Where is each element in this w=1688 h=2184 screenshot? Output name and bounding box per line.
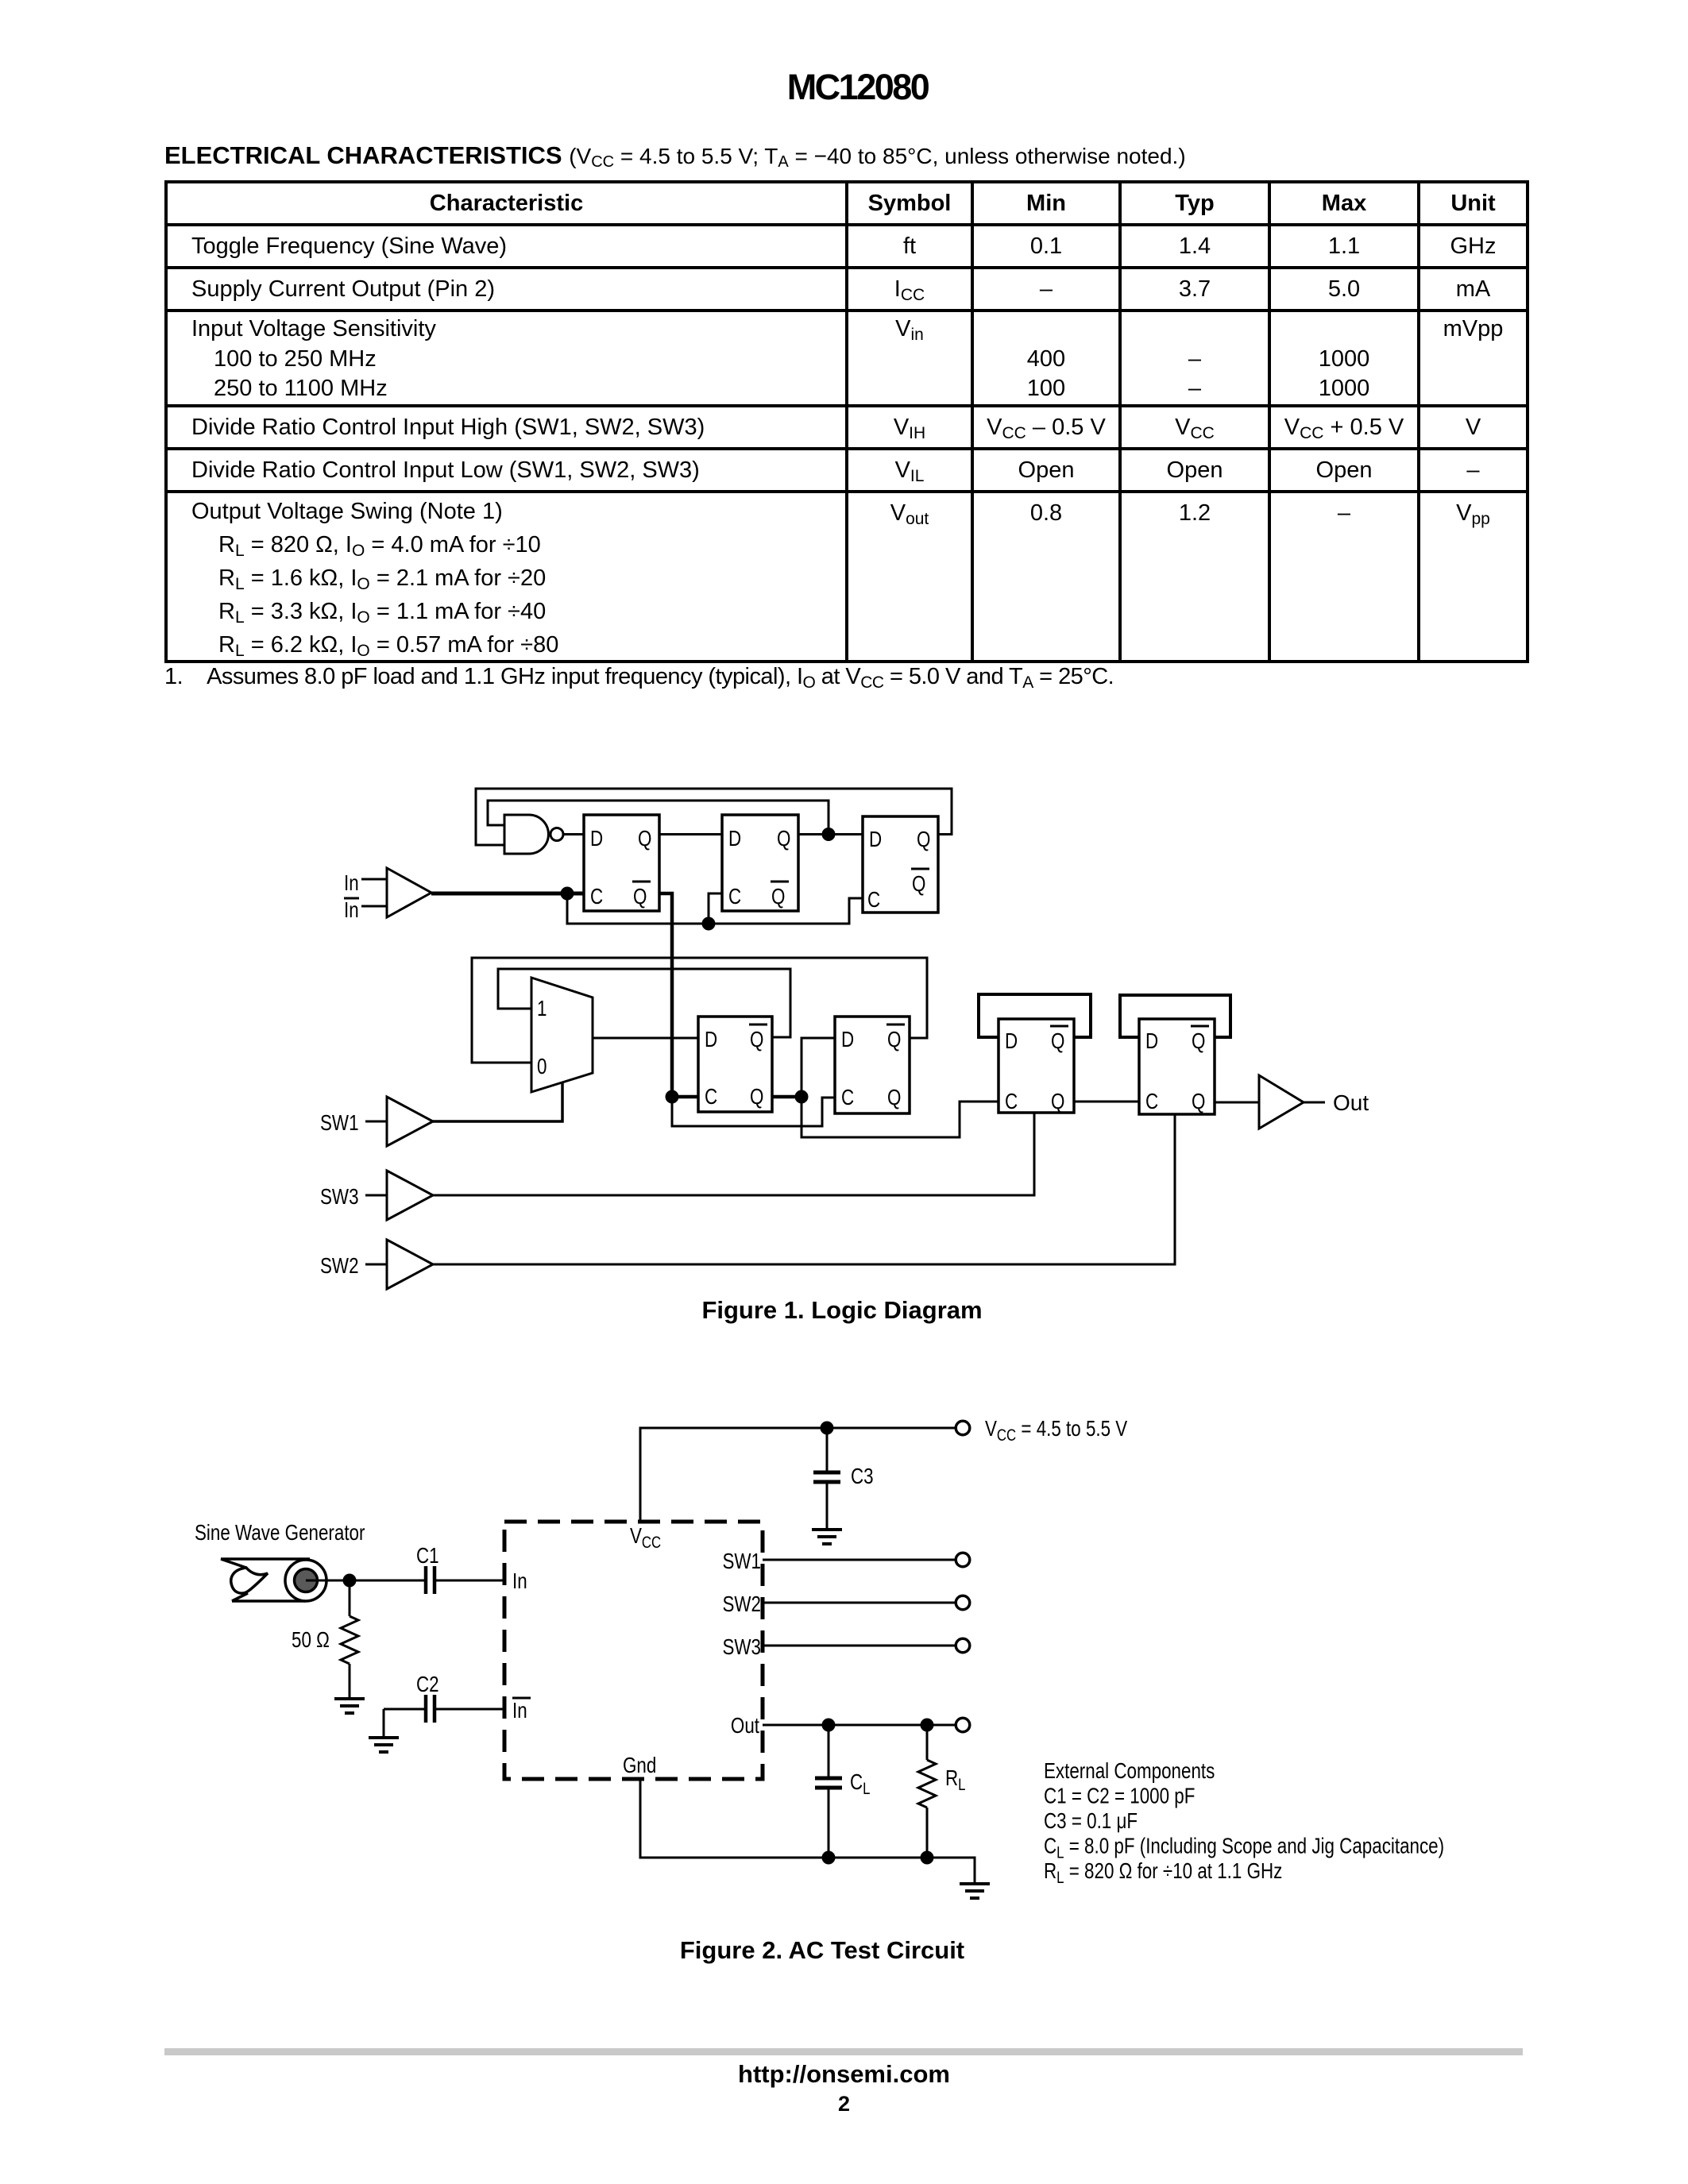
wire NAND output to FF1 D (563, 833, 584, 835)
svg-text:C3 = 0.1 μF: C3 = 0.1 μF (1044, 1809, 1138, 1834)
sine wave generator symbol (221, 1559, 326, 1601)
svg-text:In: In (512, 1569, 527, 1594)
flip-flop FF5 (835, 1017, 910, 1113)
wire SW3 to terminal (763, 1645, 955, 1647)
wire FF6 Q to FF7 C (1074, 1101, 1139, 1103)
buffer Out (1259, 1075, 1325, 1129)
terminal Out (956, 1718, 970, 1732)
wire FF7 Q to output buffer (1215, 1102, 1259, 1104)
wire VCC supply rail (640, 1428, 955, 1522)
wire SW1 to mux select (433, 1083, 562, 1121)
wire clock bus to FF2 C and FF3 C (567, 893, 863, 924)
svg-text:VCC = 4.5 to 5.5 V: VCC = 4.5 to 5.5 V (985, 1417, 1127, 1445)
node Gnd junction at RL (921, 1851, 934, 1865)
node junction FF4 Q (795, 1090, 809, 1104)
mux M1 (531, 978, 593, 1092)
wire FF5 Qbar feedback loop to mux input 0 (472, 958, 927, 1063)
wire FF4 Qbar feedback loop to mux input 1 (498, 969, 790, 1037)
wire NAND outer feedback loop from FF3 Q (476, 789, 952, 845)
svg-text:C3: C3 (851, 1464, 874, 1489)
wire FF4 Q to FF5 D and FF6 C (772, 1095, 802, 1099)
buffer SW3 (365, 1171, 433, 1220)
flip-flop FF4 (698, 1017, 772, 1112)
wire SW1 to terminal (763, 1559, 955, 1561)
buffer SW2 (365, 1240, 433, 1289)
wire into FF4 C (672, 1095, 698, 1099)
resistor 50 ohm (341, 1580, 358, 1699)
wire NAND inner feedback loop from FF2 Q node (488, 801, 829, 835)
title (14, 67, 1688, 108)
ground under 50 ohm (334, 1699, 365, 1713)
wire FF7 feedback loop Qbar to D (1120, 995, 1230, 1037)
node Gnd junction at CL (822, 1851, 836, 1865)
capacitor CL (815, 1725, 842, 1858)
svg-text:SW1: SW1 (722, 1549, 761, 1574)
label External Components (1044, 1759, 1444, 1888)
ground at bus end (960, 1884, 990, 1898)
node VCC junction (821, 1422, 834, 1435)
svg-text:Gnd: Gnd (623, 1754, 656, 1778)
node generator junction (343, 1574, 357, 1588)
device under test dashed box (504, 1522, 763, 1779)
wire up to FF5 D (802, 1038, 835, 1097)
svg-text:External Components: External Components (1044, 1759, 1215, 1784)
resistor RL (918, 1725, 936, 1858)
svg-text:Out: Out (731, 1714, 759, 1738)
wire Gnd bus (640, 1779, 975, 1884)
svg-text:SW3: SW3 (722, 1635, 761, 1660)
svg-text:C1: C1 (416, 1544, 439, 1569)
svg-text:Sine Wave Generator: Sine Wave Generator (195, 1521, 365, 1545)
wire generator to C1 (306, 1580, 424, 1582)
capacitor C3 (813, 1428, 840, 1530)
terminal VCC (956, 1421, 970, 1435)
node Out junction at RL (921, 1719, 934, 1732)
svg-text:CL = 8.0 pF (Including Scope a: CL = 8.0 pF (Including Scope and Jig Cap… (1044, 1834, 1444, 1862)
node junction on FF2 Q wire (822, 828, 836, 841)
terminal SW3 (956, 1638, 970, 1653)
wire mux output to FF4 D (593, 1037, 698, 1040)
wire FF6 feedback loop Qbar to D (979, 994, 1091, 1037)
wire clock branch up to FF2 C (709, 893, 722, 924)
electrical characteristics table (164, 180, 1529, 663)
wire FF2 Q to FF3 D (798, 833, 863, 835)
svg-text:RL: RL (945, 1766, 966, 1795)
buffer SW1 (365, 1097, 433, 1146)
wire Out to terminal (763, 1724, 955, 1727)
node Out junction at CL (822, 1719, 836, 1732)
footnote (164, 664, 1114, 690)
svg-text:C2: C2 (416, 1673, 439, 1697)
footer url (0, 2060, 1688, 2089)
buffer In input (361, 868, 431, 917)
svg-text:50 Ω: 50 Ω (292, 1628, 330, 1653)
section heading (164, 141, 1186, 170)
flip-flop FF7 (1139, 1019, 1215, 1114)
flip-flop FF1 (584, 815, 659, 911)
svg-text:C1 = C2 = 1000 pF: C1 = C2 = 1000 pF (1044, 1784, 1195, 1808)
capacitor C2 (384, 1695, 504, 1723)
wire SW2 to terminal (763, 1602, 955, 1604)
footer page number (0, 2092, 1688, 2116)
svg-text:VCC: VCC (630, 1524, 661, 1553)
wire FF1 Qbar down to second row clock (659, 893, 672, 1097)
capacitor C1 (426, 1566, 504, 1594)
ground under C3 (812, 1530, 842, 1544)
label In-bar (344, 898, 359, 923)
wire FF1 Q to FF2 D (659, 833, 722, 835)
terminal SW1 (956, 1553, 970, 1567)
svg-text:SW2: SW2 (722, 1592, 761, 1617)
svg-text:CL: CL (850, 1770, 871, 1799)
svg-text:RL = 820 Ω for ÷10 at 1.1 GHz: RL = 820 Ω for ÷10 at 1.1 GHz (1044, 1859, 1282, 1888)
wire down to FF6 C (802, 1097, 999, 1137)
flip-flop FF6 (999, 1019, 1074, 1114)
label In-bar pin (512, 1698, 531, 1723)
flip-flop FF2 (722, 815, 798, 911)
flip-flop FF3 (863, 816, 938, 913)
wire input clock to FF1 C (431, 892, 584, 896)
node junction at FF4 C (666, 1090, 679, 1104)
figure 1 caption (0, 1296, 1684, 1325)
figure 2 caption (0, 1936, 1644, 1965)
node clock junction under FF2 (702, 917, 716, 931)
wire SW2 to FF7 (433, 1114, 1175, 1264)
footer separator bar (164, 2048, 1523, 2055)
terminal SW2 (956, 1596, 970, 1610)
ground under C2 (369, 1709, 399, 1752)
wire clock to FF5 C (672, 1097, 835, 1126)
wire SW3 to FF6 (433, 1113, 1034, 1195)
NAND gate U1 (504, 815, 548, 854)
svg-text:In: In (512, 1699, 527, 1723)
node clock junction at FF1 C (561, 887, 574, 901)
